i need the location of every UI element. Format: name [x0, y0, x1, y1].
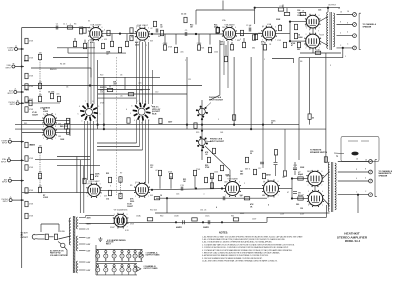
resistor R50 — [127, 118, 130, 123]
wire — [9, 137, 11, 139]
wire — [69, 118, 71, 136]
svg-text:270K: 270K — [205, 167, 210, 169]
svg-text:40MFD: 40MFD — [176, 226, 183, 229]
resistor R73 — [218, 175, 221, 180]
junction at 22,49 — [21, 48, 23, 50]
svg-text:6: 6 — [79, 106, 80, 108]
wire — [206, 140, 212, 143]
node speaker terminal A1 — [353, 13, 357, 17]
svg-text:SPEAKER: SPEAKER — [379, 174, 388, 177]
resistor R35 — [294, 33, 297, 38]
wire — [175, 34, 177, 45]
svg-text:4: 4 — [347, 32, 348, 34]
wire — [90, 121, 92, 180]
junction at 22,181 — [21, 180, 23, 182]
svg-text:T3: T3 — [68, 221, 70, 223]
wire — [126, 34, 128, 38]
svg-text:V1: V1 — [88, 21, 90, 23]
wire — [267, 217, 327, 222]
junction at 196,34 — [195, 33, 197, 35]
junction at 196,188 — [195, 187, 197, 189]
wire — [312, 28, 314, 34]
wire — [21, 28, 23, 269]
resistor R31 — [224, 56, 227, 61]
node heater tube socket — [134, 251, 136, 253]
svg-text:8: 8 — [347, 23, 348, 25]
capacitor C3 — [249, 28, 251, 32]
capacitor C2 — [156, 29, 158, 33]
resistor R7 — [25, 84, 28, 89]
svg-text:FUSE: FUSE — [60, 231, 66, 233]
resistor R64 — [108, 177, 111, 182]
svg-text:INPUT: INPUT — [8, 50, 14, 52]
resistor R66 — [154, 197, 159, 200]
svg-text:C6: C6 — [66, 87, 68, 89]
wire — [264, 42, 266, 44]
wire — [298, 58, 300, 160]
node heater tube socket — [113, 251, 115, 253]
wire — [11, 141, 24, 143]
svg-text:.005: .005 — [56, 94, 60, 96]
capacitor C6 — [293, 168, 297, 170]
svg-text:.005: .005 — [180, 52, 184, 54]
svg-text:16: 16 — [365, 160, 367, 162]
junction at 343,48 — [342, 47, 344, 49]
svg-text:5: 5 — [268, 205, 269, 207]
svg-text:12AX7: 12AX7 — [127, 205, 134, 208]
svg-text:2: 2 — [89, 39, 90, 41]
node heater tube socket — [121, 265, 123, 267]
resistor R41 — [83, 28, 86, 33]
svg-text:6AN8: 6AN8 — [226, 175, 231, 178]
svg-text:V1: V1 — [97, 259, 99, 261]
svg-text:8: 8 — [365, 169, 366, 171]
resistor R28 — [216, 27, 219, 32]
svg-text:V2: V2 — [105, 259, 107, 261]
svg-text:.02: .02 — [106, 54, 109, 56]
wire — [15, 66, 24, 68]
resistor R40 — [160, 30, 163, 35]
node heater tube socket — [97, 265, 99, 267]
transformer T1 primary winding — [327, 12, 328, 48]
wire — [319, 17, 328, 22]
tube socket V4A socket (top view) — [80, 103, 98, 121]
wire — [275, 155, 277, 162]
junction at 152,34 — [151, 33, 153, 35]
svg-text:3: 3 — [308, 191, 309, 193]
wire — [64, 247, 67, 256]
wire — [111, 34, 113, 38]
svg-text:V4A: V4A — [267, 23, 272, 26]
svg-text:20: 20 — [271, 123, 273, 125]
wire — [294, 162, 296, 167]
wire — [149, 189, 226, 190]
svg-text:INPUT: INPUT — [10, 104, 16, 106]
svg-text:6.3V HEATER WIRING: 6.3V HEATER WIRING — [107, 239, 126, 242]
wire — [103, 77, 105, 129]
wire — [338, 180, 369, 182]
svg-text:R40 4.7K: R40 4.7K — [60, 125, 68, 128]
wire — [152, 70, 154, 104]
resistor R89 — [278, 25, 281, 30]
svg-text:1: 1 — [100, 114, 101, 116]
wire — [56, 132, 70, 134]
wire — [53, 57, 88, 59]
svg-text:2200: 2200 — [130, 201, 134, 203]
svg-text:3. ALL VOLTAGES ARE DC UNLESS: 3. ALL VOLTAGES ARE DC UNLESS OTHERWISE … — [202, 241, 273, 244]
input jack J1 — [196, 106, 208, 118]
svg-text:2: 2 — [244, 183, 245, 185]
svg-text:R50 10K: R50 10K — [150, 210, 158, 212]
capacitor C4 — [181, 187, 183, 191]
tube V2A 12AX7 — [135, 27, 150, 42]
junction at 176,222 — [175, 221, 177, 223]
transformer T1 secondary winding — [333, 13, 334, 47]
wire — [211, 176, 213, 189]
wire — [250, 57, 252, 129]
input terminal AUX — [8, 179, 11, 182]
wire — [87, 121, 89, 180]
svg-text:2: 2 — [308, 185, 309, 187]
svg-text:R60: R60 — [160, 216, 163, 218]
svg-text:INPUT: INPUT — [3, 201, 9, 203]
wire — [145, 42, 147, 104]
resistor R56 — [83, 178, 86, 183]
wire — [39, 153, 41, 187]
svg-text:47: 47 — [291, 44, 293, 47]
svg-text:390: 390 — [297, 49, 300, 51]
wire — [83, 166, 85, 213]
wire — [57, 165, 100, 167]
capacitor C11 — [208, 220, 210, 224]
wire — [93, 121, 95, 180]
svg-text:1: 1 — [152, 113, 153, 115]
tube V6 EL84 — [304, 33, 321, 50]
resistor R15 — [38, 96, 41, 101]
svg-text:6: 6 — [131, 106, 132, 108]
wire — [137, 267, 141, 272]
resistor R43 — [216, 28, 219, 33]
svg-text:C6 .005: C6 .005 — [48, 92, 54, 94]
wire — [96, 274, 137, 276]
wire — [90, 42, 92, 104]
svg-text:OUTPUT TUBES: OUTPUT TUBES — [146, 255, 161, 257]
resistor R88 — [125, 41, 128, 46]
svg-text:1M: 1M — [39, 53, 42, 55]
node heater tube socket — [134, 265, 136, 267]
wire — [375, 160, 377, 197]
node heater tube socket — [97, 251, 99, 253]
junction at 202,119 — [201, 118, 203, 120]
wire — [142, 120, 144, 151]
svg-text:16: 16 — [347, 11, 349, 13]
capacitor C5 — [223, 196, 225, 200]
wire — [79, 269, 86, 271]
resistor R59 — [169, 173, 172, 178]
svg-text:INPUT: INPUT — [2, 182, 8, 184]
junction at 22,142 — [21, 141, 23, 143]
wire — [11, 180, 24, 182]
svg-text:20MFD: 20MFD — [203, 227, 210, 229]
svg-text:V3B 6AN8: V3B 6AN8 — [227, 178, 238, 181]
wire — [195, 10, 197, 25]
junction at 292,178 — [291, 177, 293, 179]
input terminal TUNER — [8, 140, 11, 143]
svg-text:INPUT: INPUT — [1, 161, 7, 163]
svg-text:R9: R9 — [130, 185, 132, 187]
wire — [139, 253, 143, 258]
wire — [359, 13, 361, 49]
svg-text:C24: C24 — [297, 9, 300, 12]
svg-text:C8: C8 — [120, 75, 122, 77]
svg-text:1. ALL RESISTORS 1/2 WATT 10%: 1. ALL RESISTORS 1/2 WATT 10% UNLESS SPE… — [202, 235, 303, 238]
svg-text:.005: .005 — [113, 84, 117, 86]
resistor R34 — [294, 24, 297, 29]
wire — [164, 34, 166, 45]
wire — [282, 5, 284, 8]
wire — [194, 176, 196, 189]
junction at 234,125 — [233, 124, 235, 126]
resistor R44 — [240, 30, 243, 35]
resistor R55 — [64, 124, 67, 129]
svg-text:7: 7 — [303, 15, 304, 17]
svg-text:C17: C17 — [258, 168, 261, 170]
resistor R27 — [208, 47, 211, 52]
svg-text:8: 8 — [145, 101, 146, 103]
node heater tube socket — [113, 265, 115, 267]
svg-text:.01: .01 — [140, 90, 143, 92]
wire — [166, 198, 168, 213]
resistor R95 — [50, 93, 53, 98]
resistor R77 — [283, 171, 286, 176]
resistor R29 — [184, 17, 187, 22]
svg-text:2: 2 — [306, 28, 307, 30]
svg-text:4: 4 — [81, 120, 82, 122]
svg-text:.02: .02 — [160, 27, 163, 29]
wire — [136, 42, 138, 104]
resistor R33 — [242, 42, 245, 47]
svg-text:5: 5 — [218, 119, 219, 121]
wire — [337, 35, 353, 37]
svg-text:V3: V3 — [113, 259, 115, 261]
wire — [292, 178, 308, 180]
transformer T2 primary winding — [328, 162, 329, 211]
svg-text:6: 6 — [278, 181, 279, 183]
wire — [275, 165, 277, 176]
capacitor C9 — [260, 162, 264, 164]
junction at 22,92 — [21, 91, 23, 93]
svg-text:16: 16 — [340, 12, 342, 14]
switch SW2 — [61, 243, 65, 247]
svg-text:4: 4 — [126, 109, 127, 111]
wire — [56, 120, 70, 122]
transformer T3 primary winding — [69, 218, 71, 245]
wire — [272, 59, 294, 64]
svg-text:V3A 6AN8: V3A 6AN8 — [224, 23, 235, 26]
wire — [17, 99, 19, 101]
svg-text:V5: V5 — [128, 259, 130, 261]
junction at 328,8 — [327, 7, 329, 9]
wire — [84, 40, 86, 44]
resistor R97 — [29, 100, 32, 105]
resistor R3 — [25, 55, 28, 60]
transformer T1 core — [330, 12, 331, 50]
wire — [236, 33, 263, 35]
svg-text:C29: C29 — [46, 131, 49, 133]
svg-text:R20: R20 — [100, 75, 103, 77]
svg-text:6. VOLTAGES AT TUBE SOCKETS ME: 6. VOLTAGES AT TUBE SOCKETS MEASURED AT … — [202, 249, 293, 252]
resistor R98 — [220, 165, 223, 170]
wire — [124, 77, 126, 89]
svg-text:9: 9 — [151, 106, 152, 108]
junction at 22,200 — [21, 199, 23, 201]
svg-text:BASS: BASS — [24, 60, 30, 63]
tube V5 EL84 — [305, 14, 321, 30]
svg-text:INPUT: INPUT — [2, 143, 8, 145]
wire — [8, 156, 10, 158]
wire — [223, 41, 225, 75]
resistor R1 — [25, 38, 28, 43]
svg-text:R41: R41 — [24, 123, 27, 125]
wire — [22, 192, 88, 194]
svg-text:J: J — [345, 56, 346, 58]
resistor R87 — [118, 47, 121, 52]
resistor R91 — [297, 42, 300, 47]
wire — [109, 85, 111, 87]
wire — [15, 124, 299, 126]
capacitor C7 — [293, 192, 297, 194]
wire — [148, 120, 150, 184]
wire — [79, 250, 86, 252]
transformer T3 filament winding 2 — [76, 261, 77, 273]
svg-text:C16: C16 — [176, 194, 179, 196]
resistor R22 — [83, 43, 86, 48]
svg-text:16: 16 — [356, 159, 358, 161]
svg-text:.02: .02 — [155, 170, 158, 172]
transformer T3 core — [73, 216, 75, 273]
tube V10 EZ81 rectifier — [113, 213, 129, 229]
resistor R4 — [25, 156, 28, 161]
svg-text:C1 .1: C1 .1 — [63, 24, 67, 26]
wire — [312, 48, 314, 53]
tube V9B 12AX7 — [42, 125, 57, 140]
resistor R52 — [194, 123, 197, 128]
wire — [156, 197, 267, 199]
input jack J2 — [196, 136, 208, 148]
node speaker terminal A3 — [353, 34, 357, 38]
svg-text:7: 7 — [137, 101, 138, 103]
resistor R24 — [163, 45, 166, 50]
wire — [262, 125, 264, 168]
wire — [338, 171, 369, 173]
svg-text:SPEAKER: SPEAKER — [363, 25, 372, 28]
wire — [68, 52, 126, 54]
wire — [159, 176, 161, 189]
resistor R21 — [73, 41, 76, 46]
svg-text:R3: R3 — [74, 24, 76, 26]
transformer T3 filament winding 1 — [76, 236, 77, 251]
wire — [96, 260, 143, 262]
resistor R51 — [159, 118, 162, 123]
node speaker terminal B3 — [369, 179, 373, 183]
wire — [31, 67, 91, 69]
svg-text:2: 2 — [87, 196, 88, 198]
junction at 290,41 — [289, 40, 291, 42]
svg-text:7: 7 — [278, 195, 279, 197]
wire — [12, 199, 24, 201]
wire — [233, 57, 235, 125]
capacitor C1 — [185, 32, 187, 36]
resistor R80 — [245, 157, 248, 162]
svg-text:R61: R61 — [231, 216, 234, 218]
transformer T2 core — [332, 162, 333, 212]
tube V4A 6AN8 — [261, 26, 277, 42]
ground — [98, 237, 102, 241]
junction at 222,222 — [221, 221, 223, 223]
svg-text:R25: R25 — [106, 173, 109, 175]
svg-text:VOLUME CONTROL: VOLUME CONTROL — [50, 255, 68, 257]
svg-text:220K: 220K — [276, 19, 281, 21]
input terminal TUNER — [15, 48, 18, 51]
input terminal AUX — [14, 91, 17, 94]
wire — [79, 243, 86, 245]
wire — [205, 146, 230, 181]
resistor SW1 — [54, 234, 57, 239]
svg-text:6: 6 — [239, 181, 240, 183]
wire — [58, 236, 70, 239]
svg-text:6: 6 — [235, 27, 236, 29]
svg-text:2200: 2200 — [135, 44, 139, 46]
wire — [86, 223, 115, 225]
wire — [291, 179, 293, 199]
junction at 222,188 — [221, 187, 223, 189]
tube V1A 12AX7 — [88, 26, 103, 41]
resistor R94 — [128, 93, 133, 96]
resistor R10 — [25, 201, 28, 206]
svg-text:BASS B: BASS B — [50, 68, 57, 71]
svg-text:47: 47 — [287, 192, 289, 194]
resistor R2 — [25, 142, 28, 147]
resistor R63 — [119, 193, 122, 198]
svg-text:470K: 470K — [163, 43, 168, 45]
svg-text:8: 8 — [92, 101, 93, 103]
svg-text:6: 6 — [319, 15, 320, 17]
wire — [111, 38, 113, 41]
capacitor C8 — [274, 163, 278, 165]
svg-text:T1: T1 — [338, 8, 340, 10]
wire — [22, 102, 60, 104]
resistor R23 — [101, 43, 104, 48]
wire — [279, 188, 293, 190]
svg-text:R35: R35 — [196, 132, 199, 134]
wire — [240, 188, 264, 190]
node heater tube socket — [121, 251, 123, 253]
resistor R49 — [233, 115, 236, 120]
svg-text:3: 3 — [141, 123, 142, 125]
svg-text:1: 1 — [146, 45, 147, 47]
svg-text:1M: 1M — [39, 146, 42, 148]
wire — [186, 57, 188, 129]
svg-text:LOUD: LOUD — [43, 111, 49, 113]
svg-text:3: 3 — [136, 28, 137, 30]
wire — [13, 62, 15, 64]
svg-text:680: 680 — [252, 48, 255, 50]
svg-text:V1A 12AX7: V1A 12AX7 — [90, 24, 102, 27]
svg-text:6: 6 — [231, 44, 232, 46]
resistor R92 — [284, 12, 289, 15]
svg-text:680: 680 — [262, 195, 265, 197]
svg-text:R7: R7 — [120, 173, 122, 175]
